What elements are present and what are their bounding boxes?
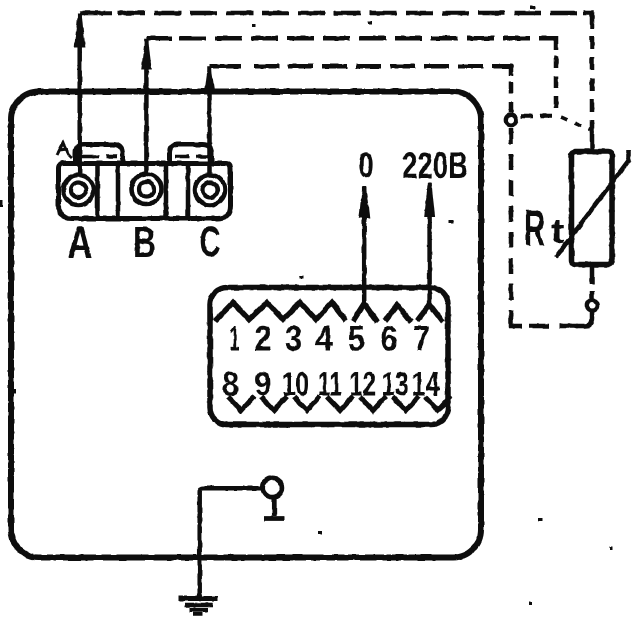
node circle upper	[506, 115, 516, 125]
dashed wire B right vertical	[554, 56, 559, 116]
terminal strip outline	[210, 288, 448, 425]
wire A corner solid	[80, 11, 112, 16]
dashed wire C horizontal	[254, 64, 503, 69]
dashed wire bottom right corner	[576, 311, 592, 327]
ground wire	[200, 488, 263, 596]
terminal A binding post	[64, 175, 94, 205]
wire B vertical	[144, 38, 149, 173]
svg-text:B: B	[133, 218, 156, 267]
svg-text:6: 6	[381, 320, 398, 359]
probe terminal circle	[263, 478, 282, 497]
ground	[179, 599, 219, 615]
terminal cover tab 2	[170, 145, 212, 165]
node circle lower	[587, 300, 597, 310]
svg-text:1: 1	[230, 320, 240, 359]
svg-text:C: C	[200, 218, 221, 266]
dashed wire B to node	[519, 114, 552, 119]
svg-text:A: A	[68, 217, 93, 268]
terminal C binding post	[195, 175, 225, 205]
contact fork 5	[353, 304, 377, 323]
terminal block divider 3	[164, 165, 169, 217]
contact V 10	[294, 396, 320, 411]
terminal block divider 2	[116, 165, 121, 217]
svg-text:3: 3	[285, 320, 302, 359]
wire 220V to pin 7	[427, 183, 432, 306]
dashed wire C right corner	[503, 66, 511, 76]
svg-text:4: 4	[315, 320, 333, 359]
arrowhead C	[204, 68, 215, 93]
terminal block divider 4	[186, 165, 191, 217]
print artifact near tab 1	[57, 143, 72, 158]
resistor Rt lead bottom	[590, 265, 595, 301]
svg-text:5: 5	[348, 320, 365, 359]
svg-text:220В: 220В	[402, 145, 468, 186]
svg-text:R: R	[524, 200, 545, 257]
dashed wire bottom horizontal	[529, 324, 578, 329]
svg-text:7: 7	[413, 320, 430, 359]
contact V 13	[393, 396, 419, 411]
dashed wire A right corner	[583, 13, 592, 29]
dashed diagonal link to Rt lead	[561, 117, 590, 130]
dashed wire B horizontal	[179, 36, 548, 41]
contact V 11	[327, 396, 353, 411]
resistor Rt diagonal stroke	[556, 150, 629, 257]
svg-text:0: 0	[358, 146, 374, 185]
terminal block body	[59, 164, 231, 219]
dashed wire node to bottom	[509, 128, 514, 316]
terminal block divider 1	[95, 165, 100, 217]
terminal B binding post	[132, 174, 162, 204]
tab 2 slot line	[175, 155, 208, 159]
dashed wire B right corner	[548, 38, 556, 50]
wire C corner solid	[210, 64, 242, 69]
terminal cover tab 1	[76, 145, 123, 165]
svg-text:2: 2	[255, 320, 272, 359]
arrowhead A	[74, 14, 85, 47]
wire C vertical	[207, 66, 212, 174]
svg-text:t: t	[551, 213, 565, 251]
dashed wire bottom left corner	[511, 314, 522, 326]
dashed wire A horizontal	[118, 11, 584, 16]
dashed wire A right vertical	[590, 36, 595, 134]
device outline	[11, 92, 481, 558]
contact V 9	[261, 396, 287, 411]
resistor Rt body	[572, 152, 613, 265]
arrowhead B	[141, 40, 152, 71]
wire A vertical	[77, 13, 82, 173]
contact chevron 6	[385, 305, 411, 322]
arrowhead 0	[359, 187, 370, 219]
probe terminal pin	[264, 497, 285, 519]
zigzag contacts 1-4	[215, 303, 346, 322]
wire 0 to pin 5	[362, 187, 367, 305]
arrowhead 220V	[424, 183, 435, 218]
contact fork 7	[417, 305, 443, 323]
contact V 12	[360, 396, 386, 411]
tab 1 slot line	[81, 155, 117, 159]
dashed wire C right vertical	[509, 82, 514, 113]
label Rt	[524, 200, 565, 257]
contact V 8	[228, 396, 254, 411]
resistor Rt lead top	[590, 131, 595, 152]
wire B corner solid	[146, 36, 172, 41]
contact V 14	[425, 396, 451, 411]
